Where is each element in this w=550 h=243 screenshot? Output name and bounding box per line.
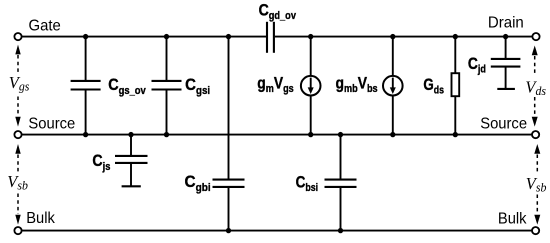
current source U1 gmVgs circle bbox=[301, 76, 321, 96]
current source U2 arrow bbox=[390, 78, 396, 94]
Vds dashed arrow up bbox=[532, 46, 538, 76]
terminal source node left bbox=[14, 131, 21, 138]
svg-text:Bulk: Bulk bbox=[26, 210, 55, 227]
junction dots bulk rail bbox=[226, 228, 343, 233]
junction dots source rail bbox=[83, 132, 458, 137]
wire G_ds branch upper bbox=[454, 37, 456, 74]
Vgs dashed arrow up bbox=[15, 45, 20, 74]
wire G_ds branch lower bbox=[454, 96, 456, 134]
wire C_js branch upper bbox=[130, 135, 132, 156]
wire gm source branch lower bbox=[310, 96, 312, 135]
wire C_gs_ov branch upper bbox=[85, 37, 87, 81]
wire C_gsi branch lower bbox=[166, 90, 168, 135]
wire C_gsi branch upper bbox=[166, 37, 168, 81]
terminal gate node bbox=[14, 33, 21, 40]
resistor G_ds body bbox=[452, 73, 460, 96]
wire C_jd branch upper bbox=[505, 37, 507, 59]
Vsb left dashed arrow down bbox=[15, 194, 20, 225]
wire C_jd branch lower stub bbox=[505, 67, 507, 89]
svg-text:Drain: Drain bbox=[488, 14, 524, 31]
wire C_gbi branch lower bbox=[228, 187, 230, 231]
wire gmb source branch lower bbox=[392, 96, 394, 135]
wire C_bsi branch lower bbox=[340, 187, 342, 231]
wire source rail bbox=[21, 134, 532, 136]
svg-text:Source: Source bbox=[28, 115, 75, 132]
svg-text:Source: Source bbox=[480, 115, 527, 132]
capacitor C_gsi plates bbox=[152, 80, 182, 82]
wire C_bsi branch upper bbox=[340, 135, 342, 180]
Vds dashed arrow down bbox=[532, 97, 538, 127]
wire C_gs_ov branch lower bbox=[85, 90, 87, 135]
terminal source node right bbox=[532, 131, 539, 138]
capacitor C_jd plates bbox=[491, 58, 521, 60]
capacitor C_js end bar bbox=[122, 185, 141, 187]
wire gate rail left segment bbox=[21, 36, 266, 38]
terminal drain node bbox=[532, 33, 539, 40]
Vsb right dashed arrow up bbox=[534, 144, 540, 173]
wire bulk rail bbox=[21, 230, 532, 232]
wire gate/drain rail right segment bbox=[275, 36, 533, 38]
capacitor C_gbi plates bbox=[213, 179, 245, 181]
capacitor C_gs_ov plates bbox=[71, 80, 101, 82]
Vsb right dashed arrow down bbox=[534, 195, 540, 225]
capacitor C_gd_ov plates (series, vertical) bbox=[266, 22, 268, 53]
capacitor C_bsi plates bbox=[325, 179, 357, 181]
Vgs dashed arrow down bbox=[15, 97, 20, 127]
wire C_js branch lower bbox=[130, 163, 132, 186]
current source U2 gmbVbs circle bbox=[383, 76, 403, 96]
current source U1 arrow bbox=[308, 78, 314, 94]
wire gmb source branch upper bbox=[392, 37, 394, 76]
Vsb left dashed arrow up bbox=[15, 144, 20, 172]
terminal bulk node left bbox=[14, 227, 21, 234]
wire C_gbi branch upper (gate to cap, crosses source rail) bbox=[228, 37, 230, 180]
svg-text:Bulk: Bulk bbox=[498, 210, 527, 227]
svg-text:Gate: Gate bbox=[29, 17, 61, 34]
capacitor C_js plates bbox=[115, 155, 148, 157]
capacitor C_jd end bar bbox=[497, 88, 515, 90]
junction dots gate rail bbox=[83, 34, 508, 39]
terminal bulk node right bbox=[532, 227, 539, 234]
wire gm source branch upper bbox=[310, 37, 312, 76]
